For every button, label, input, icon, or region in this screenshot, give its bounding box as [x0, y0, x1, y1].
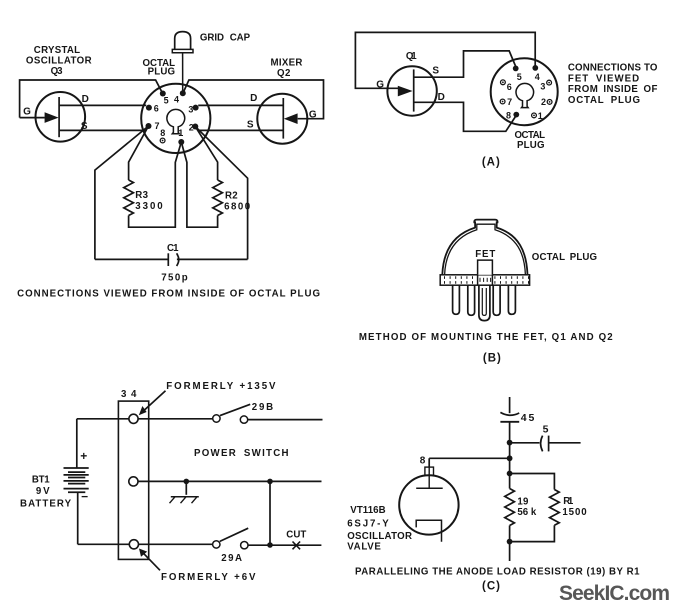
- svg-text:45: 45: [521, 412, 535, 424]
- svg-text:G: G: [309, 110, 317, 121]
- svg-text:OSCILLATOR: OSCILLATOR: [347, 531, 412, 542]
- svg-text:GRID CAP: GRID CAP: [200, 32, 251, 43]
- svg-text:6: 6: [507, 82, 512, 92]
- svg-text:CRYSTAL: CRYSTAL: [34, 45, 81, 56]
- svg-text:3300: 3300: [135, 201, 163, 212]
- svg-text:1: 1: [538, 111, 543, 121]
- svg-text:PLUG: PLUG: [148, 67, 176, 78]
- svg-text:2: 2: [541, 97, 546, 107]
- svg-text:CUT: CUT: [286, 529, 307, 540]
- svg-text:G: G: [376, 79, 384, 90]
- svg-text:R1: R1: [563, 496, 574, 507]
- svg-text:METHOD OF MOUNTING THE FET, Q1: METHOD OF MOUNTING THE FET, Q1 AND Q2: [359, 332, 613, 343]
- svg-text:8: 8: [506, 110, 511, 120]
- svg-text:3: 3: [540, 81, 545, 91]
- svg-text:FORMERLY +135V: FORMERLY +135V: [166, 381, 276, 392]
- svg-text:19: 19: [517, 497, 529, 508]
- svg-text:Q2: Q2: [277, 68, 291, 79]
- svg-text:6SJ7-Y: 6SJ7-Y: [347, 518, 389, 529]
- svg-text:29A: 29A: [221, 553, 242, 564]
- svg-text:FET: FET: [475, 249, 496, 260]
- svg-text:6800: 6800: [224, 201, 251, 212]
- svg-text:3: 3: [188, 105, 193, 115]
- svg-text:6: 6: [154, 104, 159, 114]
- svg-text:Q1: Q1: [406, 51, 417, 62]
- svg-text:OSCILLATOR: OSCILLATOR: [26, 56, 92, 67]
- svg-text:S: S: [247, 120, 254, 131]
- svg-text:CONNECTIONS TO: CONNECTIONS TO: [568, 63, 658, 74]
- svg-text:56 k: 56 k: [517, 507, 537, 518]
- svg-text:(C): (C): [482, 581, 501, 593]
- svg-text:R2: R2: [225, 191, 238, 202]
- svg-text:CONNECTIONS VIEWED FROM INSIDE: CONNECTIONS VIEWED FROM INSIDE OF OCTAL …: [17, 289, 320, 300]
- svg-text:4: 4: [174, 94, 179, 104]
- svg-text:VALVE: VALVE: [347, 542, 381, 553]
- svg-text:POWER SWITCH: POWER SWITCH: [194, 448, 289, 459]
- svg-text:S: S: [432, 65, 439, 76]
- svg-text:(A): (A): [482, 156, 501, 168]
- svg-text:29B: 29B: [252, 402, 274, 413]
- svg-text:1500: 1500: [562, 507, 587, 518]
- svg-text:1: 1: [178, 128, 183, 138]
- svg-text:C1: C1: [167, 243, 179, 254]
- svg-text:D: D: [250, 93, 258, 104]
- svg-text:D: D: [438, 92, 446, 103]
- svg-text:S: S: [81, 121, 88, 132]
- svg-text:MIXER: MIXER: [271, 57, 303, 68]
- svg-text:4: 4: [535, 72, 540, 82]
- svg-text:2: 2: [189, 122, 194, 132]
- svg-text:5: 5: [164, 96, 169, 106]
- svg-text:G: G: [23, 107, 31, 118]
- svg-text:5: 5: [543, 424, 549, 436]
- svg-text:BT1: BT1: [32, 475, 50, 486]
- svg-text:5: 5: [517, 72, 522, 82]
- svg-text:PLUG: PLUG: [517, 140, 545, 151]
- svg-text:FROM INSIDE OF: FROM INSIDE OF: [568, 84, 658, 95]
- svg-text:PARALLELING THE ANODE LOAD RES: PARALLELING THE ANODE LOAD RESISTOR (19)…: [355, 567, 640, 578]
- svg-text:8: 8: [160, 128, 165, 138]
- svg-text:8: 8: [420, 456, 426, 467]
- svg-text:SeekIC.com: SeekIC.com: [559, 582, 670, 605]
- svg-text:7: 7: [507, 97, 512, 107]
- svg-text:750p: 750p: [161, 272, 188, 283]
- svg-text:(B): (B): [483, 353, 502, 365]
- svg-text:9V: 9V: [36, 486, 50, 497]
- svg-text:R3: R3: [135, 190, 148, 201]
- svg-text:D: D: [82, 94, 90, 105]
- svg-text:OCTAL PLUG: OCTAL PLUG: [532, 252, 598, 263]
- svg-text:Q3: Q3: [51, 66, 64, 77]
- svg-text:VT116B: VT116B: [350, 505, 386, 516]
- svg-text:+: +: [80, 449, 87, 463]
- svg-text:FORMERLY +6V: FORMERLY +6V: [161, 572, 256, 583]
- svg-text:−: −: [81, 490, 88, 504]
- svg-text:7: 7: [154, 121, 159, 131]
- svg-text:OCTAL PLUG: OCTAL PLUG: [568, 95, 641, 106]
- svg-text:BATTERY: BATTERY: [20, 499, 72, 510]
